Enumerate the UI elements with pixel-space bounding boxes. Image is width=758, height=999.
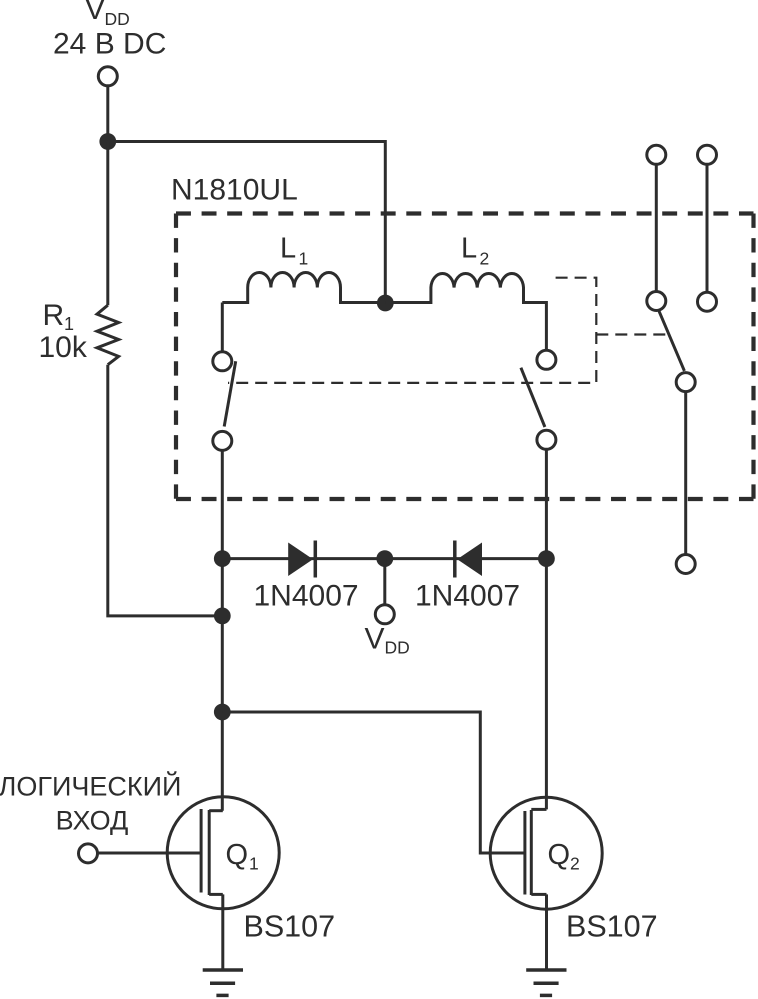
wire L1 left lead down bbox=[221, 303, 224, 352]
wire external pole A top bbox=[655, 165, 658, 292]
wire R1 bottom lead bbox=[108, 365, 223, 616]
wire Q2 source to ground bbox=[545, 894, 548, 970]
svg-text:ЛОГИЧЕСКИЙ: ЛОГИЧЕСКИЙ bbox=[0, 771, 181, 802]
wire VDD tap bbox=[383, 559, 386, 605]
relay contact right top bbox=[537, 350, 556, 369]
wire external pole B top bbox=[706, 165, 709, 292]
label D2 1N4007 bbox=[415, 580, 520, 613]
label D1 1N4007 bbox=[254, 580, 359, 613]
svg-text:BS107: BS107 bbox=[244, 910, 336, 944]
contact external NC bbox=[676, 373, 695, 392]
svg-text:2: 2 bbox=[480, 249, 490, 269]
terminal external bottom bbox=[676, 555, 695, 574]
label BS107 left bbox=[244, 910, 336, 944]
terminal VDD tap bbox=[375, 605, 394, 624]
svg-text:BS107: BS107 bbox=[566, 910, 658, 944]
wire logic input to Q1 gate bbox=[98, 852, 202, 855]
terminal logic input bbox=[79, 844, 98, 863]
svg-text:V: V bbox=[365, 623, 385, 656]
svg-text:1N4007: 1N4007 bbox=[415, 580, 520, 613]
label R1 10k bbox=[39, 299, 88, 364]
wire gate branch to Q2 gate bbox=[222, 712, 523, 853]
wire VDD junction down to R1 bbox=[106, 142, 109, 306]
svg-text:L: L bbox=[461, 233, 477, 265]
relay contact right bottom bbox=[537, 430, 556, 449]
wire diode row bbox=[222, 557, 546, 560]
label N1810UL bbox=[171, 174, 298, 207]
wire left relay to Q1 drain bbox=[221, 450, 224, 810]
svg-text:ВХОД: ВХОД bbox=[56, 805, 129, 835]
svg-text:2: 2 bbox=[570, 853, 580, 873]
terminal VDD 24V bbox=[98, 67, 117, 86]
junction diode row center bbox=[376, 550, 393, 567]
switch blade external bbox=[659, 311, 684, 371]
svg-text:N1810UL: N1810UL bbox=[171, 174, 298, 207]
inductor L1 bbox=[222, 273, 385, 303]
svg-text:1N4007: 1N4007 bbox=[254, 580, 359, 613]
svg-text:R: R bbox=[43, 299, 65, 332]
wire external NC down bbox=[684, 392, 687, 555]
terminal external B top bbox=[698, 145, 717, 164]
label L1 bbox=[280, 233, 308, 269]
diode D1 1N4007 (left, anode left) bbox=[288, 541, 315, 578]
diode D2 1N4007 (right, anode right) bbox=[455, 541, 482, 578]
inductor L2 bbox=[385, 273, 546, 350]
relay switch blade right (open) bbox=[521, 368, 545, 427]
ground Q2 bbox=[526, 970, 566, 995]
svg-text:DD: DD bbox=[105, 9, 130, 29]
relay contact left top bbox=[213, 352, 232, 371]
svg-text:1: 1 bbox=[299, 249, 309, 269]
relay switch blade left (closed) bbox=[224, 361, 236, 426]
contact external B mid bbox=[698, 292, 717, 311]
mechanical linkage dashed bbox=[228, 278, 667, 383]
transistor Q1 BS107 bbox=[167, 797, 279, 909]
node VDD label top bbox=[53, 0, 166, 61]
ground Q1 bbox=[203, 970, 243, 995]
transistor Q2 BS107 bbox=[490, 797, 602, 909]
svg-text:Q: Q bbox=[548, 839, 571, 871]
label Q1 bbox=[226, 839, 259, 873]
label Q2 bbox=[548, 839, 580, 873]
wire VDD top horizontal bbox=[108, 142, 386, 304]
contact external A mid bbox=[647, 292, 666, 311]
label VDD tap bbox=[365, 623, 410, 658]
label L2 bbox=[461, 233, 489, 269]
junction diode row left bbox=[214, 550, 231, 567]
label BS107 right bbox=[566, 910, 658, 944]
label logic input bbox=[0, 771, 181, 836]
svg-text:V: V bbox=[85, 0, 105, 26]
svg-text:1: 1 bbox=[249, 853, 259, 873]
wire right relay to Q2 drain bbox=[545, 449, 548, 809]
wire VDD terminal to junction bbox=[106, 87, 109, 142]
junction diode row right bbox=[538, 550, 555, 567]
wire Q1 source to ground bbox=[221, 894, 224, 970]
svg-text:24 В DC: 24 В DC bbox=[53, 28, 166, 61]
junction L1-L2 center node bbox=[377, 295, 394, 312]
terminal external A top bbox=[647, 145, 666, 164]
resistor R1 bbox=[97, 305, 119, 365]
svg-text:L: L bbox=[280, 233, 296, 265]
svg-text:10k: 10k bbox=[39, 331, 88, 364]
svg-text:DD: DD bbox=[385, 638, 410, 658]
relay N1810UL dashed outline bbox=[176, 214, 754, 500]
junction R1 bottom node bbox=[214, 608, 231, 625]
relay contact left bottom bbox=[213, 431, 232, 450]
junction VDD node bbox=[99, 133, 116, 150]
junction gate branch node bbox=[214, 704, 231, 721]
svg-text:Q: Q bbox=[226, 839, 249, 871]
